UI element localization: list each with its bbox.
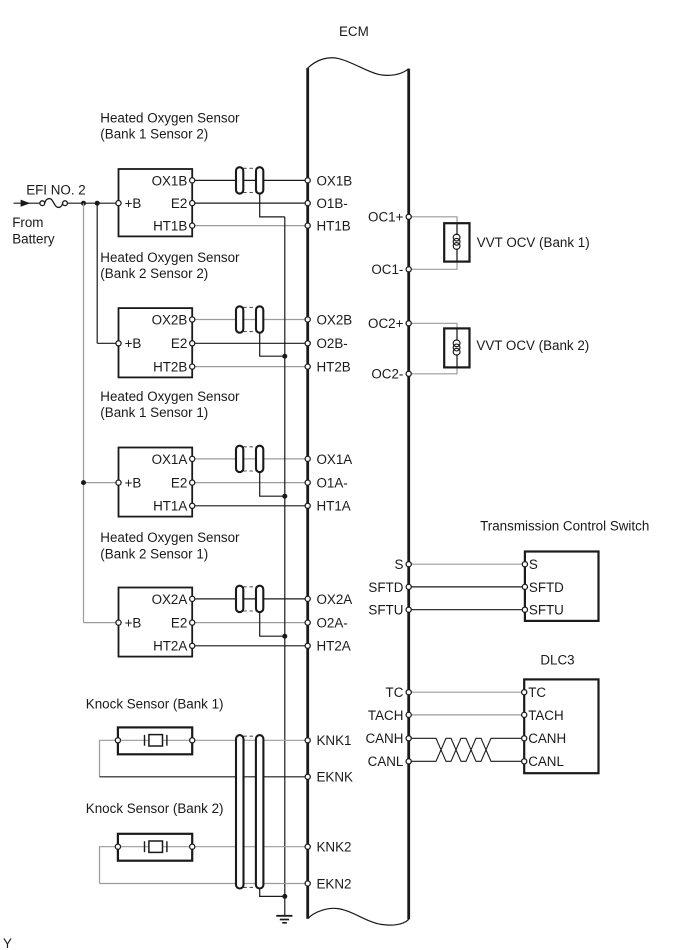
junction dot +B feed xyxy=(81,480,86,485)
svg-text:HT2A: HT2A xyxy=(317,639,351,654)
svg-text:CANH: CANH xyxy=(365,731,403,746)
shield drain bus wire xyxy=(284,217,286,916)
From Battery arrow xyxy=(14,200,43,207)
ECM pin OC1- xyxy=(371,262,411,277)
heated oxygen sensor 1 box xyxy=(119,169,193,236)
sensor 4 shield drain wire xyxy=(260,612,285,636)
sensor 2 box pin HT2B xyxy=(190,364,195,369)
svg-text:O2B-: O2B- xyxy=(317,336,348,351)
svg-text:O1A-: O1A- xyxy=(317,476,348,491)
ECM pin KNK1 xyxy=(305,733,351,748)
label heated oxygen sensor 2 xyxy=(100,250,240,281)
ECM pin SFTU xyxy=(368,603,411,618)
fuse EFI NO. 2 xyxy=(40,199,68,208)
ECM pin O1B- xyxy=(305,196,348,211)
sensor 1 box pin +B xyxy=(116,201,121,206)
ECM pin EKNK xyxy=(305,770,353,785)
svg-text:O2A-: O2A- xyxy=(317,616,348,631)
svg-text:E2: E2 xyxy=(171,336,187,351)
ECM pin OC2- xyxy=(371,367,411,382)
sensor 2 shield xyxy=(236,306,263,332)
svg-text:HT1A: HT1A xyxy=(153,499,187,514)
svg-text:(Bank 2 Sensor 1): (Bank 2 Sensor 1) xyxy=(100,546,208,561)
svg-text:OX1A: OX1A xyxy=(317,452,353,467)
junction dot shield drain 4 xyxy=(282,634,287,639)
ground xyxy=(276,916,292,923)
svg-text:HT1B: HT1B xyxy=(153,219,187,234)
ECM pin HT1A xyxy=(305,499,351,514)
ECM pin S xyxy=(394,557,411,572)
ECM pin HT1B xyxy=(305,219,351,234)
label VVT OCV (Bank 2) xyxy=(476,338,589,353)
wire fuse to +B xyxy=(67,202,118,204)
svg-text:Knock Sensor (Bank 2): Knock Sensor (Bank 2) xyxy=(86,801,224,816)
svg-text:Heated Oxygen Sensor: Heated Oxygen Sensor xyxy=(100,110,240,125)
heated oxygen sensor 3 box xyxy=(119,448,193,517)
VVT OCV (Bank 2) solenoid xyxy=(444,328,469,367)
wire OC1+ xyxy=(409,217,457,223)
label From Battery xyxy=(12,215,55,246)
ECM pin O2B- xyxy=(305,336,348,351)
svg-text:+B: +B xyxy=(125,476,142,491)
DLC3 pin CANH xyxy=(522,736,527,741)
sensor 1 box pin E2 xyxy=(190,201,195,206)
sensor 1 wire HT row xyxy=(192,225,308,227)
sensor 3 box pin +B xyxy=(116,480,121,485)
svg-text:EKNK: EKNK xyxy=(317,770,354,785)
svg-text:Battery: Battery xyxy=(12,232,55,247)
switch pin SFTD xyxy=(522,584,527,589)
DLC3 box xyxy=(524,679,598,773)
sensor 2 wire OX row xyxy=(192,319,308,321)
sensor 3 wire E2 row xyxy=(192,482,308,484)
sensor 1 shield xyxy=(236,167,263,193)
wire +B feed sensor 2 xyxy=(97,203,118,343)
wire SFTD xyxy=(409,586,525,588)
svg-text:Knock Sensor (Bank 1): Knock Sensor (Bank 1) xyxy=(86,696,224,711)
twisted pair CANL wire xyxy=(409,738,525,761)
svg-text:CANH: CANH xyxy=(528,731,566,746)
ECM pin O1A- xyxy=(305,476,348,491)
svg-text:OX2A: OX2A xyxy=(317,592,353,607)
ECM pin OX1B xyxy=(305,173,352,188)
ECM pin CANH xyxy=(365,731,411,746)
sensor 3 wire HT row xyxy=(192,505,308,507)
svg-text:KNK2: KNK2 xyxy=(317,840,352,855)
DLC3 pin TACH xyxy=(522,712,527,717)
svg-text:+B: +B xyxy=(125,336,142,351)
ECM pin OC2+ xyxy=(368,316,411,331)
knock shield xyxy=(236,735,263,888)
ECM right edge xyxy=(407,69,410,920)
junction dot knock drain xyxy=(282,894,287,899)
ECM pin TACH xyxy=(368,708,411,723)
knock sensor 2 box xyxy=(118,834,192,861)
sensor 1 wire OX row xyxy=(192,179,308,181)
knock sensor 1 return wire xyxy=(100,740,308,777)
label DLC3 xyxy=(540,653,574,668)
label EFI NO. 2 xyxy=(26,183,86,198)
heated oxygen sensor 2 box xyxy=(119,308,193,377)
svg-text:TC: TC xyxy=(386,685,404,700)
sensor 4 box pin HT2A xyxy=(190,643,195,648)
svg-text:O1B-: O1B- xyxy=(317,196,348,211)
svg-text:SFTU: SFTU xyxy=(529,603,564,618)
svg-text:OX2B: OX2B xyxy=(317,312,353,327)
sensor 3 box pin OX1A xyxy=(190,456,195,461)
svg-text:OC2+: OC2+ xyxy=(368,316,404,331)
ECM pin HT2B xyxy=(305,360,351,375)
svg-text:+B: +B xyxy=(125,196,142,211)
svg-text:+B: +B xyxy=(125,616,142,631)
ECM label xyxy=(339,24,369,39)
svg-text:HT2B: HT2B xyxy=(317,360,351,375)
svg-text:CANL: CANL xyxy=(368,754,404,769)
VVT OCV (Bank 1) solenoid xyxy=(444,223,469,261)
sensor 4 wire OX row xyxy=(192,598,308,600)
DLC3 pin TC xyxy=(522,690,527,695)
sensor 2 wire E2 row xyxy=(192,342,308,344)
ECM bottom torn edge xyxy=(308,908,409,925)
ECM pin OC1+ xyxy=(368,210,411,225)
svg-text:SFTD: SFTD xyxy=(529,580,564,595)
svg-text:SFTD: SFTD xyxy=(368,580,403,595)
svg-text:(Bank 1 Sensor 1): (Bank 1 Sensor 1) xyxy=(100,405,208,420)
svg-text:(Bank 1 Sensor 2): (Bank 1 Sensor 2) xyxy=(100,127,208,142)
svg-text:TC: TC xyxy=(528,685,546,700)
label VVT OCV (Bank 1) xyxy=(477,235,590,250)
ECM pin TC xyxy=(386,685,412,700)
sensor 3 shield drain wire xyxy=(260,472,285,496)
sensor 2 wire HT row xyxy=(192,366,308,368)
wire OC2- xyxy=(409,367,457,373)
svg-text:E2: E2 xyxy=(171,616,187,631)
ECM pin CANL xyxy=(368,754,412,769)
sensor 3 box pin HT1A xyxy=(190,503,195,508)
svg-text:OC1-: OC1- xyxy=(371,262,403,277)
switch pin S xyxy=(522,562,527,567)
wire OC1- xyxy=(409,262,457,270)
knock sensor 1 wire to ECM xyxy=(192,739,308,741)
svg-text:OC2-: OC2- xyxy=(371,367,403,382)
sensor 2 box pin +B xyxy=(116,341,121,346)
ECM left edge xyxy=(306,68,309,919)
knock sensor 1 piezo element xyxy=(145,735,167,746)
sensor 3 shield xyxy=(236,446,263,472)
svg-text:OX1B: OX1B xyxy=(152,173,188,188)
ECM pin OX2B xyxy=(305,312,352,327)
ECM pin OX2A xyxy=(305,592,352,607)
sensor 4 shield xyxy=(236,586,263,612)
svg-text:From: From xyxy=(12,215,43,230)
ECM pin EKN2 xyxy=(305,876,351,891)
wire +B feed bank A sensors xyxy=(84,203,119,622)
sensor 3 wire OX row xyxy=(192,458,308,460)
svg-text:Heated Oxygen Sensor: Heated Oxygen Sensor xyxy=(100,389,240,404)
sensor 1 box pin OX1B xyxy=(190,178,195,183)
wire S xyxy=(409,563,525,565)
sensor 2 box pin E2 xyxy=(190,341,195,346)
sensor 4 wire HT row xyxy=(192,645,308,647)
ECM pin HT2A xyxy=(305,639,351,654)
svg-text:Y: Y xyxy=(3,936,12,950)
sensor 4 box pin E2 xyxy=(190,620,195,625)
svg-text:VVT OCV (Bank 2): VVT OCV (Bank 2) xyxy=(476,338,589,353)
knock sensor 1 terminal left xyxy=(115,738,120,743)
switch pin SFTU xyxy=(522,607,527,612)
label knock sensor 1 xyxy=(86,696,224,711)
sensor 2 box pin OX2B xyxy=(190,317,195,322)
sensor 3 box pin E2 xyxy=(190,480,195,485)
svg-text:HT1B: HT1B xyxy=(317,219,351,234)
knock sensor 2 terminal left xyxy=(115,844,120,849)
svg-text:OC1+: OC1+ xyxy=(368,210,404,225)
svg-text:ECM: ECM xyxy=(339,24,369,39)
svg-text:Heated Oxygen Sensor: Heated Oxygen Sensor xyxy=(100,250,240,265)
junction dot shield drain 2 xyxy=(282,354,287,359)
svg-text:HT2A: HT2A xyxy=(153,639,187,654)
svg-text:Transmission Control Switch: Transmission Control Switch xyxy=(480,518,649,533)
label knock sensor 2 xyxy=(86,801,224,816)
ECM pin KNK2 xyxy=(305,840,351,855)
knock sensor 1 box xyxy=(118,727,192,754)
sensor 1 shield drain wire xyxy=(260,194,285,217)
svg-text:OX1A: OX1A xyxy=(152,452,188,467)
svg-text:E2: E2 xyxy=(171,196,187,211)
knock sensor 1 terminal right xyxy=(190,738,195,743)
wire TACH xyxy=(409,714,525,716)
page mark Y xyxy=(3,936,12,950)
sensor 2 shield drain wire xyxy=(260,333,285,357)
label heated oxygen sensor 3 xyxy=(100,389,240,420)
junction dot feed 2 xyxy=(95,201,100,206)
wire OC2+ xyxy=(409,323,457,328)
svg-text:EFI NO. 2: EFI NO. 2 xyxy=(26,183,86,198)
transmission control switch box xyxy=(525,552,599,621)
svg-text:Heated Oxygen Sensor: Heated Oxygen Sensor xyxy=(100,530,240,545)
svg-text:HT2B: HT2B xyxy=(153,360,187,375)
svg-text:TACH: TACH xyxy=(368,708,403,723)
svg-text:VVT OCV (Bank 1): VVT OCV (Bank 1) xyxy=(477,235,590,250)
knock shield drain wire xyxy=(260,889,285,897)
svg-text:HT1A: HT1A xyxy=(317,499,351,514)
label heated oxygen sensor 4 xyxy=(100,530,240,561)
junction dot shield drain 3 xyxy=(282,494,287,499)
DLC3 pin CANL xyxy=(522,759,527,764)
svg-text:SFTU: SFTU xyxy=(368,603,403,618)
ECM top torn edge xyxy=(308,58,409,76)
wire TC xyxy=(409,691,525,693)
label heated oxygen sensor 1 xyxy=(100,110,240,141)
ECM pin OX1A xyxy=(305,452,352,467)
sensor 1 wire E2 row xyxy=(192,202,308,204)
twisted pair CANH wire xyxy=(409,738,525,761)
sensor 4 wire E2 row xyxy=(192,622,308,624)
svg-text:TACH: TACH xyxy=(528,708,563,723)
svg-text:OX2A: OX2A xyxy=(152,592,188,607)
svg-text:KNK1: KNK1 xyxy=(317,733,352,748)
sensor 4 box pin OX2A xyxy=(190,596,195,601)
svg-text:E2: E2 xyxy=(171,476,187,491)
svg-text:S: S xyxy=(394,557,403,572)
svg-text:CANL: CANL xyxy=(528,754,564,769)
wire SFTU xyxy=(409,609,525,611)
knock sensor 2 wire to ECM xyxy=(192,846,308,848)
junction dot feed 1 xyxy=(81,201,86,206)
knock sensor 2 return wire xyxy=(100,847,308,884)
knock sensor 2 piezo element xyxy=(145,841,167,852)
svg-text:DLC3: DLC3 xyxy=(540,653,574,668)
svg-text:EKN2: EKN2 xyxy=(317,876,352,891)
svg-text:OX2B: OX2B xyxy=(152,312,188,327)
svg-text:S: S xyxy=(529,557,538,572)
ECM pin SFTD xyxy=(368,580,411,595)
svg-text:OX1B: OX1B xyxy=(317,173,353,188)
svg-text:(Bank 2 Sensor 2): (Bank 2 Sensor 2) xyxy=(100,266,208,281)
knock sensor 2 terminal right xyxy=(190,844,195,849)
sensor 4 box pin +B xyxy=(116,620,121,625)
label Transmission Control Switch xyxy=(480,518,649,533)
ECM pin O2A- xyxy=(305,616,348,631)
heated oxygen sensor 4 box xyxy=(119,588,193,657)
sensor 1 box pin HT1B xyxy=(190,223,195,228)
